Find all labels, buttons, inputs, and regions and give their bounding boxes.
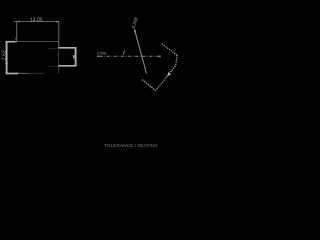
svg-text:2.62: 2.62 <box>2 50 8 60</box>
right tab bottom bright bar <box>58 65 76 67</box>
svg-text:0.508: 0.508 <box>97 52 106 56</box>
centerline (dash-dot) <box>100 55 161 57</box>
body bottom medium segment <box>18 72 28 74</box>
top dimension extension line right <box>58 21 60 47</box>
lead detail: steep lead line L1 <box>135 30 147 74</box>
left terminal vertical bright bar <box>6 41 8 74</box>
right tab right bright bar <box>75 47 77 66</box>
svg-text:TOLERANCE / SEATING: TOLERANCE / SEATING <box>104 143 158 149</box>
foot line of lead <box>142 80 156 91</box>
hidden lead line upper inside body <box>48 47 58 49</box>
lead tip nub <box>73 55 75 58</box>
centerline left arrowhead <box>96 55 99 57</box>
arrowhead on leader pointing to foot <box>167 72 171 77</box>
top dimension left arrowhead <box>17 21 20 23</box>
angled dimension leader upper segment (dotted) <box>162 44 177 56</box>
tab left faint edge <box>58 48 60 66</box>
angled dimension leader lower segment <box>156 55 178 90</box>
left terminal top cap <box>6 41 16 43</box>
body bottom faint segment <box>28 72 44 74</box>
package body top edge (faint) <box>7 41 59 43</box>
arrowhead at top of lead line <box>134 29 136 33</box>
small tick above centerline <box>123 51 124 55</box>
centerline right end tick <box>159 56 161 58</box>
top dimension extension line left <box>16 21 18 43</box>
top dimension right arrowhead <box>56 21 59 23</box>
left dimension down arrowhead <box>5 63 8 67</box>
hidden lead line lower inside body <box>48 65 59 67</box>
package body right edge (faint) <box>58 42 60 74</box>
left terminal bottom cap <box>6 73 18 75</box>
top dimension line with left tail <box>14 21 59 23</box>
stray tick above body edge <box>15 38 16 40</box>
right tab top bright bar <box>58 47 76 49</box>
svg-text:14.05: 14.05 <box>30 17 43 23</box>
